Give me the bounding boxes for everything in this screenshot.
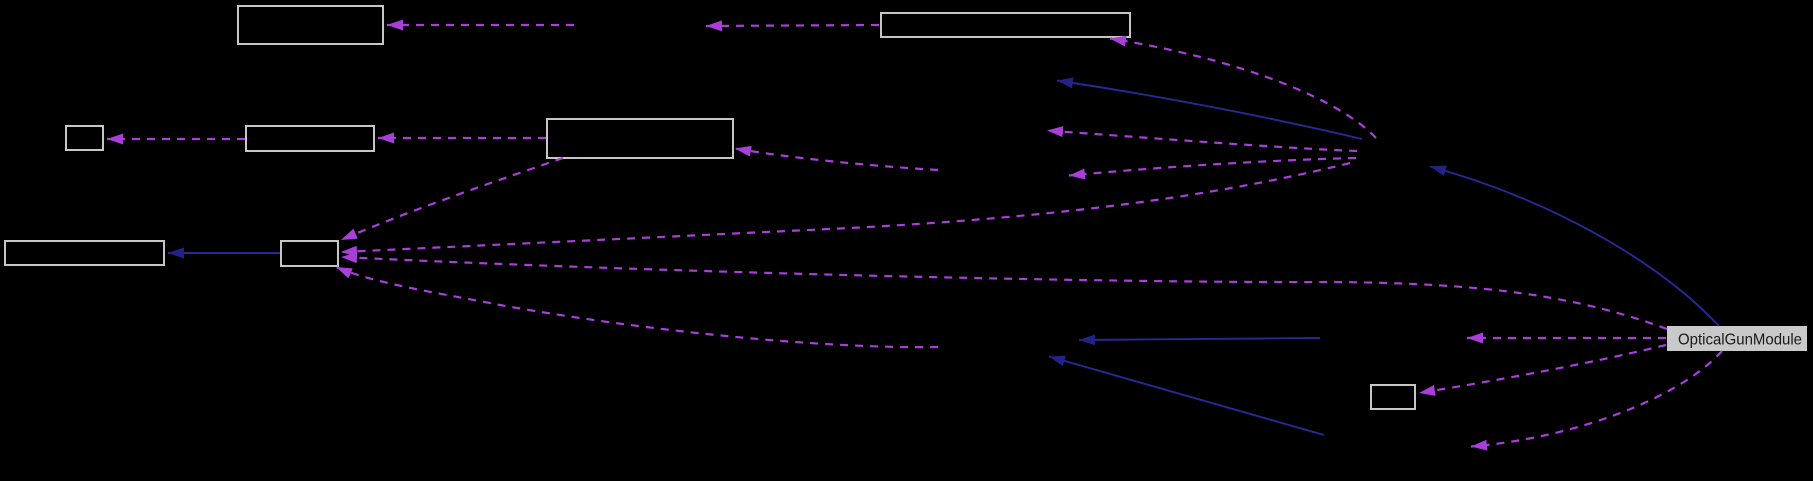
- blue edge: hidden to hidden (horizontal): [1079, 338, 1320, 340]
- node G (small empty box, mid): [281, 241, 338, 266]
- dashed edge: hub fan F3: [1047, 131, 1357, 152]
- dashed edge: E to D: [378, 137, 546, 139]
- dashed edge: OpticalGunModule to hidden node N2: [1467, 337, 1666, 339]
- dashed edge: hub to B corner: [1110, 39, 1376, 139]
- node F (empty box, mid left): [5, 241, 164, 265]
- dashed edge: hidden node to G (short bottom): [336, 267, 938, 347]
- node A (empty class box, top left): [238, 6, 383, 44]
- dashed edge: hidden node to E: [735, 149, 938, 171]
- node C (small empty box, left): [66, 126, 103, 150]
- node I (small empty box, bottom right): [1371, 385, 1415, 409]
- dashed edge: D to C: [107, 138, 245, 140]
- node OpticalGunModule (filled): [1667, 326, 1807, 351]
- dashed edge: E to G (diagonal): [341, 158, 563, 240]
- dashed edge: hub fan F4: [1069, 158, 1356, 176]
- dashed edge: B to hidden node: [706, 25, 879, 26]
- dashed edge: hidden node to A: [387, 24, 574, 26]
- blue edge: G to F: [168, 252, 280, 254]
- blue edge: hub to hidden node (upper): [1057, 81, 1362, 140]
- dashed edge: hub to G (long flat): [341, 163, 1350, 252]
- dashed edge: OpticalGunModule to G (long horizontal): [341, 257, 1667, 329]
- blue edge: hidden to hidden (diagonal): [1049, 357, 1324, 436]
- dashed edge: OpticalGunModule to I: [1419, 345, 1666, 393]
- node B (empty class box, top middle): [881, 13, 1130, 37]
- node E (tall empty box): [547, 119, 733, 158]
- node D (empty box): [246, 126, 374, 151]
- dashed edge: OpticalGunModule to hidden node N3: [1471, 351, 1722, 447]
- svg-text:OpticalGunModule: OpticalGunModule: [1678, 332, 1802, 349]
- blue edge: OpticalGunModule to hub node N1: [1430, 167, 1719, 327]
